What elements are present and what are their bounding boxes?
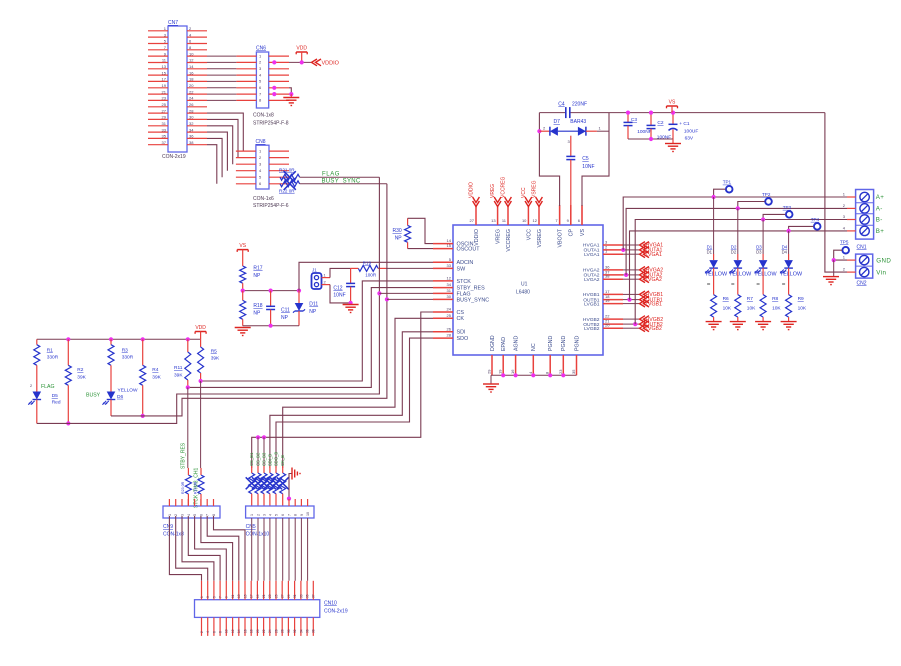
svg-text:YELLOW: YELLOW — [780, 272, 803, 278]
svg-text:25: 25 — [162, 102, 167, 107]
CN5 pins — [250, 499, 310, 516]
svg-text:R9: R9 — [798, 296, 804, 302]
svg-text:12: 12 — [447, 275, 452, 280]
svg-text:CS: CS — [457, 310, 465, 316]
svg-text:12: 12 — [231, 629, 235, 633]
svg-text:34: 34 — [299, 629, 303, 633]
svg-text:CN8: CN8 — [256, 139, 266, 145]
svg-text:R2: R2 — [77, 367, 83, 373]
junction C12 ground — [349, 301, 353, 305]
junction CN2 GND — [832, 258, 836, 262]
net arrow VDDIO at CN6 — [312, 59, 322, 66]
svg-text:TP3: TP3 — [783, 205, 792, 210]
svg-text:YELLOW: YELLOW — [754, 272, 777, 278]
svg-text:C5: C5 — [582, 156, 589, 162]
resistor R6 10K — [711, 295, 717, 318]
junction FLAG at U1 pin — [377, 291, 381, 295]
ground below C12 — [343, 304, 359, 306]
svg-text:CN1: CN1 — [857, 245, 867, 251]
wire R3 to D6 — [110, 365, 112, 391]
wires CN7 pins 28-38 to CN8 — [207, 113, 243, 184]
wire J1 pin1 to R19 node — [330, 268, 351, 277]
wire CS col3 to resistor — [263, 437, 265, 468]
svg-text:31: 31 — [293, 594, 297, 598]
ground below C1 — [672, 139, 674, 144]
svg-text:15: 15 — [243, 594, 247, 598]
connector CN7 CON-2x19 body — [168, 26, 187, 152]
svg-text:32: 32 — [293, 629, 297, 633]
wire rail to D7 pin2 to VBOOT — [539, 113, 559, 206]
connector CN1 terminal block — [856, 190, 874, 240]
svg-text:CON-2x19: CON-2x19 — [162, 154, 186, 160]
wire LED D2 to resistor — [737, 268, 739, 295]
no-populate X over R22 — [284, 178, 296, 190]
resistor R3 330R — [110, 339, 112, 344]
resistor R2 39K — [67, 339, 69, 365]
wire TP5 to CN2 GND — [834, 250, 847, 260]
wire SDI net — [270, 332, 433, 468]
wire OUTA1 to CN1 A+ — [623, 197, 847, 250]
svg-text:VDDIO: VDDIO — [322, 60, 340, 66]
svg-text:LVGB1: LVGB1 — [584, 301, 600, 307]
svg-text:30: 30 — [447, 294, 452, 299]
junction VDD stem — [300, 60, 304, 64]
svg-text:1: 1 — [200, 596, 204, 598]
svg-text:CON-1x8: CON-1x8 — [253, 113, 274, 119]
junction CN6 pin7 — [272, 92, 276, 96]
svg-text:220NF: 220NF — [572, 102, 587, 108]
svg-text:AGND: AGND — [514, 336, 520, 351]
U1 right pins — [583, 240, 623, 332]
wire LED D1 to resistor — [713, 268, 715, 295]
wire TP1 column down to LED D1 — [713, 197, 715, 254]
resistor R24 0R — [198, 475, 204, 494]
connector CN9 CON-1x8 body — [163, 506, 220, 518]
resistor R1 330R — [36, 339, 38, 344]
svg-text:DGND: DGND — [490, 335, 496, 351]
svg-text:13: 13 — [162, 64, 167, 69]
svg-text:LVGA1: LVGA1 — [584, 252, 600, 258]
svg-text:24: 24 — [189, 96, 194, 101]
ground below U1 — [490, 375, 492, 384]
svg-text:R30: R30 — [393, 228, 402, 234]
svg-text:38: 38 — [189, 140, 194, 145]
svg-text:2: 2 — [174, 514, 178, 516]
wire LED D4 to resistor — [788, 268, 790, 295]
wire VS rail top — [539, 112, 565, 114]
wire R4 bottom to BUSY bus — [142, 385, 144, 416]
svg-text:35: 35 — [162, 134, 167, 139]
svg-text:B+: B+ — [876, 228, 885, 235]
svg-text:34: 34 — [447, 282, 452, 287]
wire SDO net — [276, 338, 433, 468]
svg-text:6: 6 — [212, 631, 216, 633]
svg-text:VS: VS — [580, 229, 586, 237]
junction OUTB2 — [633, 322, 637, 326]
no-populate X over R21 — [284, 171, 296, 183]
svg-text:10: 10 — [306, 512, 310, 516]
svg-text:TP4: TP4 — [811, 217, 820, 222]
wire CN6 pin2 to VDD / VDDIO — [289, 61, 311, 63]
connector CN6 CON-1x8 body — [256, 52, 268, 108]
wire CS net — [252, 312, 433, 468]
CN7 left pins 1-37 — [148, 26, 168, 145]
junction TP3 column — [761, 217, 765, 221]
ground below R18 — [235, 327, 251, 329]
wire R1 to D5 — [36, 365, 38, 391]
junction C3 top — [626, 111, 630, 115]
svg-text:330R: 330R — [122, 355, 134, 361]
svg-text:27: 27 — [281, 594, 285, 598]
junction CS col2 — [256, 435, 260, 439]
svg-text:100NF: 100NF — [637, 129, 651, 135]
svg-text:D7: D7 — [554, 119, 561, 125]
CN6 pins — [236, 53, 289, 102]
svg-text:18: 18 — [189, 77, 194, 82]
svg-text:NP: NP — [395, 236, 403, 242]
wire J1 pin2 to C12 ground node — [330, 285, 351, 303]
svg-text:25: 25 — [447, 313, 452, 318]
svg-text:12: 12 — [189, 58, 194, 63]
wire D7 pin1 to VS pin — [582, 113, 609, 206]
svg-text:LVGA2: LVGA2 — [646, 277, 662, 283]
svg-text:SW: SW — [457, 266, 467, 272]
resistor R5 39K — [200, 339, 202, 347]
svg-text:CN9: CN9 — [163, 524, 173, 530]
svg-text:NP: NP — [281, 315, 289, 321]
svg-text:17: 17 — [162, 77, 167, 82]
resistor R23 0R — [185, 475, 191, 494]
svg-text:24: 24 — [447, 307, 452, 312]
svg-text:D5: D5 — [52, 393, 58, 399]
svg-text:34: 34 — [189, 127, 194, 132]
svg-text:D6: D6 — [117, 394, 123, 400]
svg-text:30: 30 — [189, 115, 194, 120]
wire TP2 column down to LED D2 — [737, 208, 739, 254]
svg-text:19: 19 — [605, 298, 610, 303]
svg-text:8: 8 — [219, 631, 223, 633]
svg-text:B-: B- — [876, 217, 883, 224]
svg-text:18: 18 — [250, 629, 254, 633]
svg-text:10K: 10K — [798, 306, 807, 312]
svg-text:C12: C12 — [333, 286, 342, 292]
ground below R8 — [762, 317, 764, 322]
svg-text:SDI_B: SDI_B — [267, 454, 272, 466]
svg-text:16: 16 — [189, 70, 194, 75]
svg-text:38: 38 — [605, 274, 610, 279]
power VS left — [237, 249, 248, 251]
svg-text:R3: R3 — [122, 348, 128, 354]
svg-text:OSCOUT: OSCOUT — [457, 247, 481, 253]
junction CN6 pin6 — [272, 86, 276, 90]
wire CN7 pins 10-24 to CN6 — [207, 56, 236, 100]
svg-text:2: 2 — [200, 631, 204, 633]
svg-text:+ C1: + C1 — [679, 121, 690, 127]
svg-text:D11: D11 — [309, 302, 318, 308]
svg-text:9: 9 — [300, 514, 304, 516]
svg-text:23: 23 — [162, 96, 167, 101]
svg-text:39K: 39K — [77, 374, 86, 380]
svg-text:R1: R1 — [47, 348, 53, 354]
green net labels above CN5 — [249, 452, 285, 466]
junction STBY_RES at R11 — [186, 385, 190, 389]
svg-text:D4: D4 — [782, 250, 788, 255]
wires CN5 to CN10 — [252, 518, 308, 581]
svg-text:R8: R8 — [772, 296, 778, 302]
svg-text:19: 19 — [256, 594, 260, 598]
junction OUTA2 — [624, 273, 628, 277]
svg-text:PGND: PGND — [574, 336, 580, 351]
op-amp U1 L6480 body — [453, 225, 603, 355]
svg-text:20: 20 — [605, 323, 610, 328]
svg-text:CP: CP — [569, 229, 575, 237]
svg-text:28: 28 — [447, 333, 452, 338]
svg-text:L6480: L6480 — [516, 290, 530, 296]
wire CN6 pin6 to ground — [289, 88, 291, 94]
svg-text:100R: 100R — [365, 273, 377, 278]
svg-text:VCC: VCC — [526, 229, 532, 240]
svg-text:EPAD: EPAD — [501, 337, 507, 351]
svg-text:63V: 63V — [685, 135, 694, 141]
wire bottom bus of NP area — [243, 325, 299, 327]
power VS top right — [667, 105, 678, 107]
resistor R4 39K — [142, 339, 144, 365]
ground below R9 — [788, 317, 790, 322]
svg-text:J1: J1 — [312, 268, 317, 273]
svg-text:100UF: 100UF — [684, 129, 698, 135]
J1 pin stubs — [322, 277, 331, 279]
wire CS col2 to resistor — [257, 437, 259, 468]
svg-text:8: 8 — [294, 514, 298, 516]
svg-text:VDDIO: VDDIO — [469, 182, 475, 198]
svg-text:19: 19 — [498, 369, 503, 374]
svg-text:10NF: 10NF — [333, 292, 345, 298]
svg-text:CS_B3: CS_B3 — [262, 452, 267, 466]
svg-text:STCK: STCK — [457, 279, 472, 285]
svg-text:PGND: PGND — [548, 336, 554, 351]
resistor R17 NP — [242, 258, 244, 266]
svg-text:LVGA1: LVGA1 — [646, 252, 662, 258]
svg-text:38: 38 — [312, 629, 316, 633]
wire R19 to SW pin — [386, 267, 433, 269]
wire FLAG from R21 to vertical — [300, 176, 380, 178]
svg-text:20: 20 — [256, 629, 260, 633]
svg-text:15: 15 — [447, 243, 452, 248]
connector CN8 CON-1x6 body — [256, 145, 269, 189]
svg-text:CN6: CN6 — [256, 46, 266, 52]
svg-text:YELLOW: YELLOW — [705, 272, 728, 278]
wire D11 node to ADCIN — [299, 262, 433, 290]
svg-text:33: 33 — [299, 594, 303, 598]
svg-text:31: 31 — [162, 121, 167, 126]
wire CK net — [283, 318, 433, 468]
wire cap cluster bottom bus — [628, 138, 673, 140]
junction C2 top — [649, 111, 653, 115]
svg-text:30: 30 — [287, 629, 291, 633]
svg-text:PGND: PGND — [561, 336, 567, 351]
wire STBY_RES net — [188, 288, 433, 388]
svg-text:R24 0R: R24 0R — [194, 481, 198, 494]
resistor R8 10K — [760, 295, 766, 318]
svg-text:D1: D1 — [707, 250, 713, 255]
svg-text:R7: R7 — [747, 296, 753, 302]
junction TP4 column — [787, 229, 791, 233]
svg-text:VS: VS — [669, 100, 676, 106]
svg-text:VDD: VDD — [195, 325, 206, 331]
svg-text:19: 19 — [162, 83, 167, 88]
svg-text:31: 31 — [447, 288, 452, 293]
svg-text:VS: VS — [239, 243, 246, 249]
svg-text:4: 4 — [206, 631, 210, 633]
svg-text:1: 1 — [168, 514, 172, 516]
svg-text:23: 23 — [268, 594, 272, 598]
svg-text:R5: R5 — [211, 349, 217, 355]
svg-text:CK_B: CK_B — [280, 455, 285, 466]
svg-text:23: 23 — [558, 369, 563, 374]
svg-text:6: 6 — [199, 514, 203, 516]
svg-text:CON-2x19: CON-2x19 — [324, 609, 348, 615]
U1 left pins — [433, 238, 489, 342]
svg-text:VSREG: VSREG — [532, 180, 538, 198]
svg-text:A+: A+ — [876, 194, 885, 201]
wire STCK column down to CN9 — [200, 381, 202, 468]
net arrows VDDIO VREG VCCREG VCC VSREG above U1 — [469, 176, 543, 206]
svg-text:C2: C2 — [657, 120, 663, 126]
wire LED D3 to resistor — [762, 268, 764, 295]
wire R30 bottom to OSCOUT — [408, 248, 433, 250]
svg-text:5: 5 — [275, 514, 279, 516]
svg-text:LVGA2: LVGA2 — [584, 277, 600, 283]
svg-text:LVGB2: LVGB2 — [646, 326, 662, 332]
junction OUTB1 — [627, 298, 631, 302]
svg-text:D2: D2 — [731, 250, 737, 255]
wire FLAG net vertical from CN8 — [37, 177, 380, 423]
wire D6 cathode to BUSY bus — [110, 400, 112, 416]
svg-text:VBOOT: VBOOT — [558, 228, 564, 247]
svg-text:VCCREG: VCCREG — [506, 229, 512, 252]
svg-text:32: 32 — [189, 121, 194, 126]
svg-text:2: 2 — [257, 514, 261, 516]
svg-text:24: 24 — [268, 629, 272, 633]
svg-text:NP: NP — [253, 273, 261, 279]
wire Vin to VS rail — [825, 113, 847, 273]
svg-text:R17: R17 — [253, 266, 262, 272]
wire TP1 to OUT row — [714, 189, 726, 197]
svg-text:29: 29 — [162, 115, 167, 120]
svg-text:R18: R18 — [253, 303, 262, 309]
svg-text:4: 4 — [268, 514, 272, 516]
capacitor C12 10NF — [350, 268, 352, 283]
svg-text:VCC: VCC — [521, 187, 527, 198]
connector J1 body — [312, 273, 322, 289]
U1 top pins — [470, 205, 586, 252]
svg-text:SDO: SDO — [457, 336, 469, 342]
capacitor C5 10NF — [566, 155, 575, 157]
svg-text:20: 20 — [189, 83, 194, 88]
svg-text:A-: A- — [876, 206, 883, 213]
node row R17/R18 junction — [243, 290, 299, 292]
svg-text:7: 7 — [219, 596, 223, 598]
ground below R7 — [737, 317, 739, 322]
svg-text:10: 10 — [522, 218, 527, 223]
svg-text:VCCREG: VCCREG — [501, 176, 507, 198]
svg-text:STRIP254P-F-6: STRIP254P-F-6 — [253, 203, 289, 209]
junction CN5 ground column — [287, 497, 291, 501]
svg-text:7: 7 — [206, 514, 210, 516]
ground at CN6 — [290, 94, 292, 97]
svg-text:6: 6 — [281, 514, 285, 516]
svg-text:8: 8 — [212, 514, 216, 516]
resistors R25-R29 0R above CN5 — [246, 466, 289, 506]
svg-text:36: 36 — [189, 134, 194, 139]
ground sideways near CN5 — [289, 474, 292, 499]
svg-text:STBY_RES: STBY_RES — [181, 442, 187, 469]
svg-text:9: 9 — [225, 596, 229, 598]
wire CN6 pin7 to ground — [289, 93, 291, 95]
CN8 pins — [236, 148, 289, 186]
svg-text:3: 3 — [263, 514, 267, 516]
svg-text:FLAG: FLAG — [41, 384, 55, 390]
svg-text:STRIP254P-F-8: STRIP254P-F-8 — [253, 121, 289, 127]
svg-text:NP: NP — [309, 309, 317, 315]
resistor R18 NP — [242, 291, 244, 301]
svg-text:1: 1 — [250, 514, 254, 516]
junction TP1 column — [712, 195, 716, 199]
svg-text:26: 26 — [189, 102, 194, 107]
wire STBY_RES column down to CN9 — [187, 387, 189, 468]
wire R2 bottom to FLAG bus — [67, 385, 69, 423]
wire BUSY_SYNC from R22 to vertical — [300, 183, 387, 185]
svg-text:YELLOW: YELLOW — [118, 387, 138, 393]
svg-text:3: 3 — [206, 596, 210, 598]
wire VDD bus LED block — [37, 338, 201, 340]
svg-text:ADCIN: ADCIN — [457, 260, 474, 266]
svg-text:7: 7 — [288, 514, 292, 516]
wire BUSY_SYNC net vertical from CN8 — [111, 184, 387, 416]
svg-text:TP2: TP2 — [762, 192, 771, 197]
svg-text:SDO_B: SDO_B — [274, 452, 279, 466]
CN7 right pins 2-38 — [187, 26, 207, 145]
svg-text:BUSY_SYNC: BUSY_SYNC — [457, 297, 490, 303]
resistor R7 10K — [735, 295, 741, 318]
svg-text:R23 0R: R23 0R — [181, 481, 185, 494]
svg-text:2: 2 — [30, 384, 32, 388]
svg-text:NC: NC — [531, 343, 537, 351]
svg-text:4: 4 — [187, 514, 191, 516]
svg-text:SDI: SDI — [457, 330, 466, 336]
svg-text:R4: R4 — [152, 367, 158, 373]
CN9 pins — [168, 499, 216, 516]
diode D11 NP zener — [298, 291, 300, 303]
svg-text:CN10: CN10 — [324, 601, 337, 607]
svg-text:TP5: TP5 — [840, 240, 849, 245]
svg-text:39K: 39K — [152, 374, 161, 380]
svg-text:26: 26 — [447, 326, 452, 331]
wire OUTA2 to CN1 A- — [626, 208, 847, 275]
svg-text:29: 29 — [287, 594, 291, 598]
svg-text:36: 36 — [306, 629, 310, 633]
junction C1/VS top — [671, 111, 675, 115]
svg-text:Vin: Vin — [876, 270, 886, 277]
LED D6 YELLOW — [107, 392, 116, 400]
svg-text:BAR43: BAR43 — [570, 119, 586, 125]
svg-text:13: 13 — [491, 218, 496, 223]
svg-text:21: 21 — [162, 89, 167, 94]
svg-text:CN7: CN7 — [168, 20, 178, 26]
svg-text:CK: CK — [457, 316, 465, 322]
wire TP4 column down to LED D4 — [788, 231, 790, 254]
svg-text:28: 28 — [189, 108, 194, 113]
